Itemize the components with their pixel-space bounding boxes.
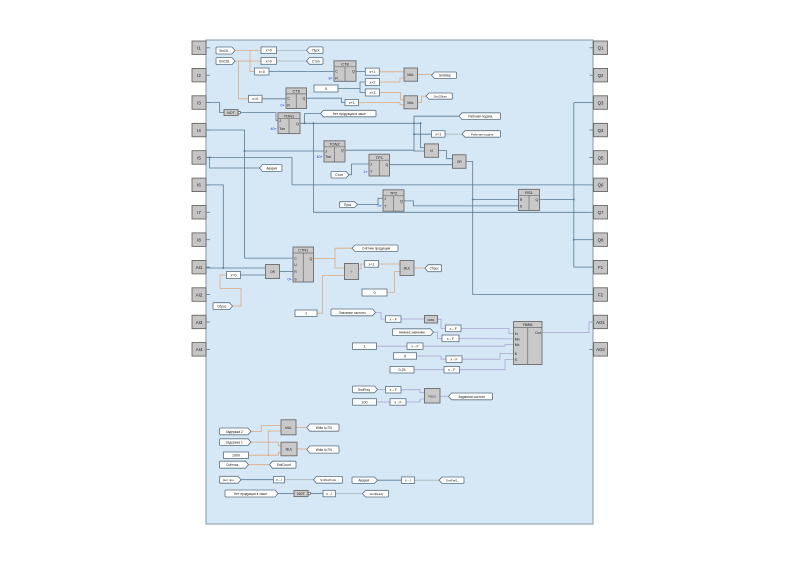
input terminal I6 [192,178,206,192]
wire const1 up to DIV.in2 [317,276,345,314]
wire NOT to TON1.J [241,113,278,121]
wire FAB1 to x0 2 [438,319,446,328]
svg-text:I1: I1 [197,46,201,51]
adder x+1 second [345,99,359,105]
FBD canvas background [206,40,593,524]
svg-text:x+1: x+1 [369,262,375,266]
variable tag Rabochaya podacha 2 [462,131,501,138]
wire xF4 to FilMlt.Max [423,345,514,347]
svg-text:I6: I6 [197,183,201,188]
svg-text:AI1: AI1 [196,265,203,270]
svg-text:x+3: x+3 [369,91,375,95]
svg-text:I8: I8 [197,238,201,243]
svg-text:AI4: AI4 [196,347,203,352]
svg-text:OR: OR [270,270,275,274]
svg-text:1000: 1000 [232,454,240,458]
wire tag ZnachChastoty to xF1 [376,312,386,319]
pin value 8 of CT8 [329,76,333,80]
svg-text:Q2: Q2 [598,73,604,78]
variable tag SmlStep [432,72,457,79]
converter x-F 4 [407,343,423,350]
svg-text:AI2: AI2 [196,292,203,297]
converter x-F 5 [446,356,462,363]
variable tag SmCtl1 [216,47,235,54]
wire split vertical to x+3 [360,88,365,92]
svg-text:1»: 1» [364,170,368,174]
output terminal Q6 [594,178,608,192]
wire CT6.Q to x+1 lower [307,98,346,102]
svg-text:R: R [520,198,523,202]
wire tag SmlFreq to xF7 [378,388,386,390]
output terminal Q8 [594,233,608,247]
svg-text:Сброс: Сброс [430,267,440,271]
wire NetPro to xI1 [241,479,274,481]
wire branch SmCtl2 down to x=0 D [239,61,249,99]
wire bus to F1 [574,266,590,268]
wire xI3 to SmlReady [336,493,363,495]
svg-text:Стоп: Стоп [312,59,320,63]
variable tag Write to PCH 1 [307,424,339,431]
svg-text:SmCtl2.: SmCtl2. [219,60,230,64]
svg-text:Q: Q [296,122,299,126]
svg-text:Write to ПЧ: Write to ПЧ [316,426,332,430]
variable tag Sbros in [213,303,233,310]
junction I6 AI1 [222,267,224,269]
input terminal I4 [192,123,206,137]
input terminal I5 [192,151,206,165]
pin value 0 of TP2 [378,204,382,208]
svg-text:Топ: Топ [325,155,331,159]
svg-text:0: 0 [325,87,327,91]
multiplier MUL3 [281,420,296,435]
comparator x=0 B [261,58,277,65]
converter x-I 1 [274,476,285,483]
output terminal F2 [594,288,608,302]
svg-text:MUL: MUL [404,267,411,271]
stub of input I2 [206,74,210,76]
multiplier MUL1 [404,68,418,81]
wire x+1 E to MUL5.in1 [379,264,401,266]
svg-text:Q8: Q8 [598,238,604,243]
wire const0 to split x+2/x+3 [338,87,360,89]
svg-text:Нет про..: Нет про.. [223,478,236,482]
wire MUL2 to tag Sml2Start [418,96,427,102]
wire Q6 bus [292,184,590,186]
function FSCV [425,389,441,404]
wire CTN1.Q east [314,258,336,260]
stub of output Q6 [590,184,594,186]
converter x-0 3 [442,335,459,342]
svg-text:TON2: TON2 [329,141,340,146]
stub of input AI4 [206,348,210,350]
converter x-F 1 [386,316,402,323]
output terminal Q7 [594,206,608,220]
variable tag SmlFail [439,477,464,483]
wire MUL5 to tag SbrosOut [414,267,425,269]
junction OR2 RS1 [472,199,474,201]
svg-text:Топ: Топ [279,127,285,131]
svg-text:Q: Q [341,149,344,153]
wire TON1.Q east [300,122,421,124]
wire Zaderzhka2 to MUL3.in1 [251,426,281,432]
multiplier MUL4 [281,442,297,456]
macro FilMlt1 [514,322,543,365]
wire const1000 east [249,452,282,455]
svg-text:Mn: Mn [515,338,520,342]
svg-text:Q: Q [310,257,313,261]
svg-text:Сброс: Сброс [217,305,227,309]
svg-text:SmlFreq: SmlFreq [358,388,370,392]
svg-text:0: 0 [373,291,375,295]
svg-text:100: 100 [362,400,368,404]
svg-text:Q: Q [536,198,539,202]
svg-text:R: R [335,76,338,80]
constant 1000 [224,452,249,458]
svg-text:x=0: x=0 [259,70,265,74]
wire x=0 B to tag Stop [277,60,307,62]
svg-text:x→F: x→F [447,337,454,341]
counter CT6 [286,88,307,109]
wire SmCtl1 to x=0 A [235,50,261,52]
variable tag Rabochaya podacha 1 [459,113,501,120]
wire const0 b to xF5 [417,356,447,359]
wire xF6 to FilMlt.S [460,360,514,370]
svg-text:SmCtl..: SmCtl.. [219,49,230,53]
svg-text:R: R [287,104,290,108]
wire branch SmCtl1 down to x=0 C [250,51,255,72]
wire I6 down [206,185,223,268]
variable tag Zadannaya chastota [449,393,493,400]
wire MUL1 to tag SmlStep [418,74,432,76]
output terminal AO2 [594,343,608,357]
converter x-I 3 [323,490,336,497]
variable tag SmlNoProd [314,476,343,483]
svg-text:F1: F1 [598,265,604,270]
wire down to DIV.in1 [335,259,345,269]
wire branch B down to AND.in1 [421,123,425,147]
svg-text:F2: F2 [598,292,604,297]
svg-text:Q1: Q1 [598,46,604,51]
wire tag Sbros loop to x=0 E [220,275,241,306]
inverter NOT1 [224,110,241,116]
constant 1 mid [295,310,317,317]
converter x-I 2 [402,477,415,484]
wire TP2.Q to RS1.S [404,201,519,206]
svg-text:C: C [287,97,290,101]
junction branch B [420,122,422,124]
svg-text:Нижнее значение: Нижнее значение [399,331,425,335]
pin value 40 of TON1 [271,127,277,131]
wire xI2 to SmlFail [415,479,440,481]
svg-text:Рабочая подача,: Рабочая подача, [468,115,493,119]
wire OR2 down to F2 [466,162,590,295]
junction bus Q8 [573,239,575,241]
svg-text:x→F: x→F [411,345,418,349]
junction Q7 drop [313,122,315,124]
wire TON2.Q to AND.in2 [345,149,425,152]
adder x+1 third [365,261,379,268]
logic OR1 [266,265,280,279]
svg-text:TON1: TON1 [284,113,295,118]
wire I5 down to Q6 bus [291,157,293,184]
svg-text:Mx: Mx [515,343,520,347]
input terminal AI3 [192,315,206,329]
wire I5 east [206,156,292,158]
stub of output AO1 [590,321,594,323]
constant 100 [353,399,377,406]
multiplier MUL5 [400,261,414,276]
wire CT8.Q to x+1 [356,71,365,73]
function FAB1 [425,316,438,324]
svg-text:1: 1 [363,345,365,349]
wire up to tag RabPodacha [414,116,459,123]
wire DIV to x+1 E [359,264,365,269]
wire xF5 to FilMlt.K [462,354,514,360]
svg-text:Q7: Q7 [598,210,604,215]
comparator x=0 D [249,95,263,102]
stub of output Q1 [590,47,594,49]
wire tag Nizhnee to x0 3 [434,332,443,338]
svg-text:SmlReady: SmlReady [370,492,384,496]
svg-text:Заданная частота: Заданная частота [458,395,485,399]
output terminal Q5 [594,151,608,165]
junction I4 TON2 [244,150,246,152]
variable tag Znachenie chastoty [331,309,376,316]
svg-text:x+2: x+2 [369,80,375,84]
svg-text:1: 1 [305,312,307,316]
svg-text:Q4: Q4 [598,128,604,133]
wire const0 up to MUL5.in2 [387,272,400,293]
stub of output F2 [590,294,594,296]
logic OR2 [453,155,467,169]
wire RS1.Q to bus [540,199,574,201]
svg-text:x=0: x=0 [252,97,258,101]
input terminal I3 [192,96,206,110]
wire to tag Schetchik [335,248,352,258]
svg-text:x→F: x→F [394,400,401,404]
wire const100 to xF8 [377,401,391,403]
wire F bus vertical [573,103,575,268]
svg-text:AO2: AO2 [596,347,605,352]
constant 0.25 [390,367,414,374]
svg-text:x→F: x→F [390,388,397,392]
svg-text:x→F: x→F [450,327,457,331]
svg-text:R: R [294,270,297,274]
wire bus to Q8 [574,239,590,241]
variable tag Zaderzhka 1 [220,439,252,446]
svg-text:И: И [430,149,433,153]
svg-text:40»: 40» [271,127,277,131]
svg-text:TP1: TP1 [376,155,384,160]
svg-text:Задержка 1: Задержка 1 [226,441,243,445]
svg-text:0»: 0» [281,104,285,108]
svg-text:0»: 0» [288,277,292,281]
svg-text:40»: 40» [317,155,323,159]
wire x=0 C to CT8.C [269,71,334,73]
wire x0 2 to FilMlt.In [461,328,514,333]
junction RS1 bus [573,199,575,201]
stub of input AI2 [206,294,210,296]
svg-text:FAB1: FAB1 [428,318,435,322]
variable tag Schetchik in [220,461,249,468]
wire x=0 E to OR1.in2 [241,274,266,276]
variable tag Pusk in [340,202,358,208]
variable tag Nizhnee znachenie [393,329,434,336]
svg-text:CT6: CT6 [292,89,300,94]
output terminal Q4 [594,123,608,137]
variable tag SmlCount [270,461,297,468]
stub of output Q2 [590,74,594,76]
svg-text:x→I: x→I [276,478,282,482]
svg-text:I5: I5 [197,155,201,160]
wire x=0 D to CT6.C [262,98,286,100]
variable tag Sbros out [425,265,442,272]
input terminal I2 [192,68,206,82]
converter x-F 7 [386,387,402,394]
logic AND1 [425,144,439,157]
stub of output Q7 [590,211,594,213]
wire const1 b to xF4 [377,345,408,347]
svg-text:x→F: x→F [450,358,457,362]
timer TON1 [278,113,300,134]
stub of input I8 [206,239,210,241]
svg-text:Нет продукции в чаше: Нет продукции в чаше [333,112,366,116]
svg-text:SmlFail1..: SmlFail1.. [446,479,460,483]
wire SmCtl2 to x=0 B [235,60,261,62]
variable tag SmlFreq [353,386,378,393]
svg-text:8»: 8» [329,76,333,80]
stub of output Q5 [590,156,594,158]
wire x+2 to MUL1.in2 [380,78,405,82]
adder x+3 [365,89,379,96]
svg-text:I4: I4 [197,128,201,133]
input terminal I8 [192,233,206,247]
constant 0 freq [394,353,417,360]
pin value 1 of TP1 [364,170,368,174]
svg-text:NOT: NOT [297,492,305,496]
comparator x=0 A [261,47,277,54]
constant 1 freq [353,343,377,350]
wire I4 down [206,130,293,258]
variable tag Avaria out [260,165,283,172]
variable tag Sml2Start [426,93,453,99]
svg-text:NOT: NOT [227,111,235,115]
svg-text:OR: OR [457,160,462,164]
wire I5 to tag Avaria [210,157,260,168]
svg-text:Out: Out [535,331,541,335]
timer TP1 [369,154,390,176]
svg-text:0: 0 [404,354,406,358]
wire NetProdukcii2 to NOT2 [278,493,294,495]
wire xI1 to SmlNoProd [285,479,314,481]
svg-text:x=1: x=1 [435,132,441,136]
svg-text:TP2: TP2 [390,190,398,195]
variable tag Pusk out [307,47,324,54]
wire AI1 to OR1.in1 [206,266,266,269]
svg-text:In: In [515,332,518,336]
svg-text:J: J [279,119,281,123]
svg-text:I7: I7 [197,210,201,215]
variable tag Stop out [307,58,324,65]
counter CT8 [334,61,356,82]
svg-text:C: C [294,257,297,261]
timer TP2 [383,190,404,211]
svg-text:I2: I2 [197,73,201,78]
wire tag Stop2 to TP1.J [349,164,369,175]
svg-text:x→F: x→F [390,317,397,321]
svg-text:x=0: x=0 [231,273,237,277]
wire NOT2 to xI3 [310,493,323,495]
variable tag Avaria in [352,477,378,483]
wire Avaria2 to xI2 [378,479,402,481]
comparator x=0 C [255,68,270,75]
wire x+3 to MUL2.in1 [380,93,405,100]
svg-text:Q3: Q3 [598,100,604,105]
constant 0 mid [362,289,387,296]
wire MUL3 to WritePCH1 [296,426,307,428]
wire const025 to xF6 [414,369,444,371]
variable tag SmCtl2 [216,58,235,65]
svg-text:Q: Q [386,163,389,167]
wire FSCV to tag ZadChastota [440,395,449,397]
svg-text:Q5: Q5 [598,155,604,160]
wire TON1.Q up to tag [305,114,321,124]
svg-text:x+1: x+1 [349,101,355,105]
constant 0 top [314,85,338,92]
stub of output Q8 [590,239,594,241]
wire vertical A down [413,123,415,151]
output terminal Q3 [594,96,608,110]
input terminal AI1 [192,260,206,274]
stub of input I4 [206,129,210,131]
stub of output F1 [590,266,594,268]
stub of input I5 [206,156,210,158]
svg-text:C: C [335,70,338,74]
variable tag Schetchik produkcii [352,245,398,252]
variable tag SmlReady [363,490,389,497]
wire Schetchik to SmlCount [249,464,270,466]
wire xF8 to FSCV.in2 [406,399,425,402]
junction vertical A [413,122,415,124]
variable tag Write to PCH 2 [307,446,339,453]
svg-text:SmlStep: SmlStep [439,74,451,78]
stub of input AI1 [206,266,210,268]
svg-text:x=0: x=0 [266,49,272,53]
wire I3 to NOT [206,103,224,113]
stub of input AI3 [206,321,210,323]
adder x+2 [365,79,379,86]
svg-text:Sml2Start: Sml2Start [434,95,447,99]
wire x0 3 to FilMlt.Min [459,337,514,340]
svg-text:Авария: Авария [358,479,369,483]
svg-text:J: J [384,197,386,201]
svg-text:Стоп: Стоп [335,173,343,177]
adder x+1 top [365,68,379,75]
pin value 0 of CTN1 [288,277,292,281]
svg-text:MUL: MUL [407,101,414,105]
wire bus to Q3 [574,102,590,104]
wire split vertical to x+2 [360,82,365,88]
junction I5 avaria [209,156,211,158]
stub of input I7 [206,211,210,213]
svg-text:0»: 0» [378,204,382,208]
svg-text:x=0: x=0 [266,59,272,63]
svg-text:Пуск: Пуск [344,203,352,207]
svg-text:RS1: RS1 [525,190,534,195]
junction TON1 tag [304,122,306,124]
stub of input I3 [206,102,210,104]
svg-text:CTN1: CTN1 [298,249,308,253]
